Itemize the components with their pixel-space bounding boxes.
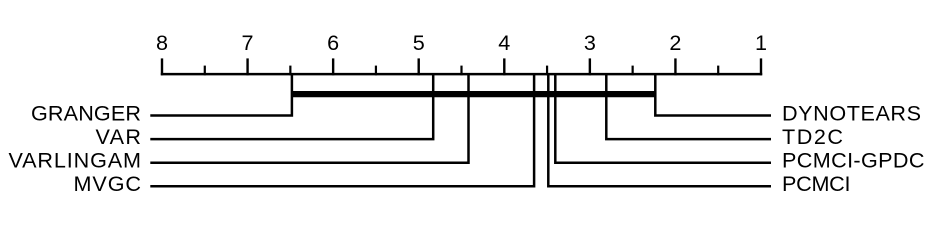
major tick 2 xyxy=(674,58,676,75)
svg-text:PCMCI: PCMCI xyxy=(782,171,851,196)
svg-text:1: 1 xyxy=(755,30,767,55)
svg-text:6: 6 xyxy=(327,30,339,55)
major tick 1 xyxy=(760,58,762,75)
svg-text:VARLINGAM: VARLINGAM xyxy=(9,148,142,173)
svg-text:3: 3 xyxy=(584,30,596,55)
svg-text:DYNOTEARS: DYNOTEARS xyxy=(782,100,921,125)
svg-text:2: 2 xyxy=(669,30,681,55)
svg-text:5: 5 xyxy=(413,30,425,55)
svg-text:PCMCI-GPDC: PCMCI-GPDC xyxy=(782,148,925,173)
minor tick 7.5 xyxy=(204,66,206,76)
method line VARLINGAM xyxy=(150,74,468,163)
minor tick 6.5 xyxy=(289,66,291,76)
svg-text:7: 7 xyxy=(242,30,254,55)
svg-text:4: 4 xyxy=(498,30,510,55)
minor tick 1.5 xyxy=(717,66,719,76)
minor tick 2.5 xyxy=(632,66,634,76)
clique bar xyxy=(291,91,656,97)
axis line xyxy=(161,73,762,76)
major tick 8 xyxy=(161,58,163,75)
method line TD2C xyxy=(606,74,771,139)
svg-text:VAR: VAR xyxy=(96,124,142,149)
method line VAR xyxy=(150,74,433,139)
method line PCMCI xyxy=(548,74,771,186)
method line PCMCI-GPDC xyxy=(555,74,771,163)
major tick 4 xyxy=(503,58,505,75)
svg-text:TD2C: TD2C xyxy=(782,124,843,149)
svg-text:8: 8 xyxy=(156,30,168,55)
major tick 3 xyxy=(589,58,591,75)
method line MVGC xyxy=(150,74,534,186)
minor tick 3.5 xyxy=(546,66,548,76)
svg-text:GRANGER: GRANGER xyxy=(31,100,141,125)
major tick 5 xyxy=(418,58,420,75)
svg-text:MVGC: MVGC xyxy=(74,171,142,196)
minor tick 4.5 xyxy=(460,66,462,76)
method line GRANGER xyxy=(150,74,292,116)
major tick 6 xyxy=(332,58,334,75)
method line DYNOTEARS xyxy=(655,74,771,116)
minor tick 5.5 xyxy=(375,66,377,76)
major tick 7 xyxy=(246,58,248,75)
